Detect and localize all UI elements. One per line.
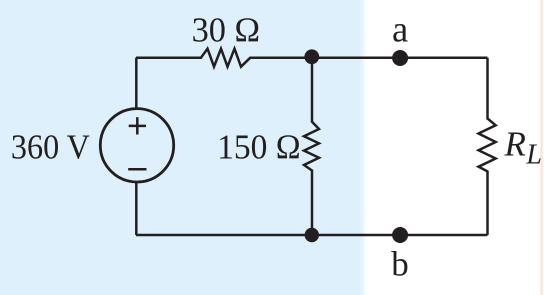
svg-text:150 Ω: 150 Ω bbox=[217, 128, 301, 167]
svg-text:a: a bbox=[392, 10, 408, 51]
wire: bottom horizontal bbox=[136, 234, 488, 237]
page edge stripe bbox=[541, 0, 543, 295]
resistor R 30ohm zigzag bbox=[201, 49, 250, 67]
terminal node b bbox=[392, 227, 408, 243]
wire: left vertical below source bbox=[135, 181, 138, 235]
wire: top-left horizontal segment bbox=[136, 56, 202, 59]
wire: middle vertical upper segment bbox=[311, 58, 314, 123]
voltage source V1 (360 V) bbox=[100, 109, 173, 182]
wire: middle vertical lower segment bbox=[311, 170, 314, 236]
resistor RL zigzag bbox=[479, 119, 496, 172]
shaded source-circuit region bbox=[0, 0, 367, 295]
wire: right vertical upper segment bbox=[486, 58, 489, 120]
wire: right vertical lower segment bbox=[486, 171, 489, 236]
svg-text:360 V: 360 V bbox=[11, 128, 90, 167]
terminal node a bbox=[392, 50, 408, 66]
resistor R 150ohm zigzag bbox=[304, 122, 319, 171]
wire: top horizontal to right corner bbox=[250, 56, 488, 59]
junction node top (30ohm / 150ohm) bbox=[304, 49, 319, 64]
svg-text:30 Ω: 30 Ω bbox=[192, 11, 261, 50]
junction node bottom bbox=[305, 228, 319, 242]
svg-text:RL: RL bbox=[504, 125, 542, 171]
svg-text:b: b bbox=[391, 245, 409, 284]
wire: left vertical above source bbox=[135, 58, 138, 110]
